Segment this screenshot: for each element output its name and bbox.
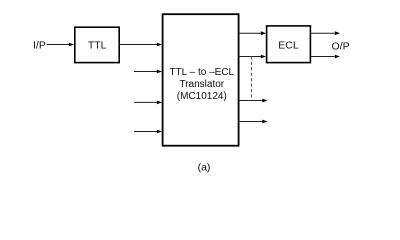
block TTL bbox=[75, 27, 119, 62]
wire TTL to translator bbox=[119, 43, 162, 47]
svg-text:Translator: Translator bbox=[179, 79, 224, 90]
output arrow 4 bbox=[239, 120, 268, 124]
svg-text:TTL – to –ECL: TTL – to –ECL bbox=[169, 67, 234, 78]
input arrow 4 bbox=[134, 130, 162, 134]
wire translator to ECL bottom bbox=[239, 55, 266, 59]
ECL output wire bottom bbox=[310, 55, 340, 59]
svg-text:ECL: ECL bbox=[278, 40, 299, 52]
input arrow 3 bbox=[134, 101, 162, 105]
ECL output wire top bbox=[310, 31, 340, 35]
svg-text:I/P: I/P bbox=[33, 39, 46, 51]
svg-text:O/P: O/P bbox=[332, 40, 350, 52]
svg-text:TTL: TTL bbox=[88, 40, 107, 52]
block translator MC10124 bbox=[163, 14, 239, 146]
dashed link wire bbox=[251, 57, 253, 101]
caption (a) bbox=[198, 162, 211, 174]
node I/P bbox=[33, 39, 46, 51]
block ECL bbox=[267, 26, 311, 63]
wire I/P to TTL bbox=[47, 43, 74, 47]
svg-text:(MC10124): (MC10124) bbox=[177, 91, 227, 102]
node O/P bbox=[332, 40, 350, 52]
output arrow 3 bbox=[239, 99, 268, 103]
input arrow 2 bbox=[134, 70, 162, 74]
wire translator to ECL top bbox=[239, 31, 266, 35]
svg-text:(a): (a) bbox=[198, 162, 211, 174]
